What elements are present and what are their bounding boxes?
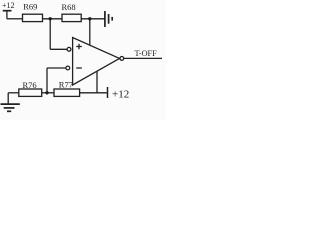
svg-text:R69: R69	[23, 1, 37, 11]
svg-text:+12: +12	[2, 1, 15, 10]
svg-text:R76: R76	[23, 80, 37, 90]
svg-text:R77: R77	[59, 79, 73, 89]
svg-text:R68: R68	[62, 2, 76, 12]
svg-text:+12: +12	[112, 88, 129, 100]
svg-text:T-OFF: T-OFF	[135, 49, 158, 58]
